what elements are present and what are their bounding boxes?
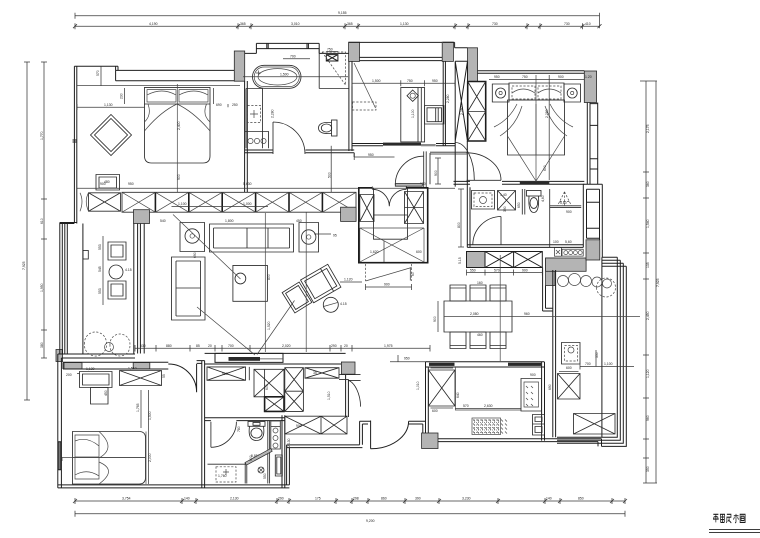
svg-text:5.15: 5.15 [458,257,462,264]
svg-text:1,130: 1,130 [104,103,113,107]
svg-text:600: 600 [543,165,547,171]
entry door arc [371,421,409,449]
svg-text:900: 900 [177,174,181,180]
wall TV segment [205,353,346,364]
svg-text:540: 540 [160,219,166,223]
bed2 axis [62,432,146,485]
wall bathroom1 top step [245,43,349,53]
door closet leaf gray [395,184,422,187]
wall step right of laundry [443,42,468,47]
wall entry left jamb [360,421,371,445]
laundry drying rack [354,63,376,108]
dim line right segments [640,81,657,483]
sliding door dark bar left [429,363,455,366]
window top laundry [349,42,454,60]
svg-text:2,020: 2,020 [282,344,291,348]
dim above wardrobe band [77,187,455,189]
svg-text:250: 250 [232,103,238,107]
washer circles [248,138,266,143]
svg-text:9,200: 9,200 [366,519,375,523]
svg-text:553: 553 [98,288,102,294]
balcony table circle [109,265,123,279]
bedroom2 tv cabinet cross [120,371,162,386]
kitchen counter edge [455,367,521,410]
svg-text:570: 570 [463,404,469,408]
bed master pillows [147,90,208,102]
svg-text:5,630: 5,630 [243,182,252,186]
svg-text:2,000: 2,000 [148,453,152,462]
wall left outer [60,66,77,223]
dim corridor ensuite [458,189,464,247]
svg-text:900: 900 [530,373,536,377]
svg-text:1,770: 1,770 [40,131,44,140]
ensuite door arc [473,217,501,246]
dim corridor 950 [354,154,394,160]
svg-text:700: 700 [585,362,591,366]
svg-text:460: 460 [477,333,483,337]
svg-text:900: 900 [384,283,390,287]
door bathroom1 arc [273,122,305,154]
svg-text:700: 700 [228,344,234,348]
svg-text:750: 750 [327,48,333,52]
closet right wardrobe [405,192,424,224]
toilet bathroom1 [319,120,338,136]
svg-text:450: 450 [296,219,302,223]
svg-text:4.15: 4.15 [340,302,347,306]
kitchen sink cabinet [521,379,542,412]
svg-text:900: 900 [434,170,438,176]
bedroom2 dresser [80,372,113,388]
svg-text:2,130: 2,130 [230,497,239,501]
gray block hall door [341,362,355,374]
nub on left balcony wall [83,251,88,260]
balcony stool A [108,242,126,260]
wall gray L horizontal [546,258,587,271]
ensuite vanity [472,191,495,210]
bathtub [243,65,348,88]
svg-text:1,100: 1,100 [411,109,415,118]
wall gray L vertical stub [546,258,555,286]
column top D [468,48,478,82]
basin dashed bathroom1 [248,106,261,123]
dim bedroom1 inner [77,66,228,110]
dim line left segments [41,62,47,358]
svg-text:2,175: 2,175 [646,124,650,133]
column top B [349,42,360,61]
svg-text:1,000: 1,000 [243,202,252,206]
dim kitchen [455,408,521,410]
svg-text:7,925: 7,925 [22,261,26,270]
svg-text:350: 350 [595,352,599,358]
dim laundry top [352,80,455,86]
svg-text:3,754: 3,754 [122,497,131,501]
svg-text:800: 800 [457,222,461,228]
bed3 axis [535,75,537,181]
svg-text:650: 650 [517,202,521,208]
balcony storage cross [574,414,616,435]
bath2 counter [208,463,246,465]
bath2 toilet [248,422,265,441]
wall corridor verticals [455,141,467,187]
dim living mid [172,206,269,208]
dim line right overall 7925 [655,81,657,483]
svg-text:390: 390 [415,497,421,501]
svg-text:390: 390 [503,206,507,212]
svg-text:1.20: 1.20 [585,75,592,79]
hall storage bottom row [285,416,347,434]
svg-text:730: 730 [492,22,498,26]
bed3 body [508,100,565,155]
dining chairs top [450,285,506,301]
svg-text:1,120: 1,120 [344,278,353,282]
svg-text:960: 960 [524,312,530,316]
wall entry recess [287,445,363,448]
svg-text:2,400: 2,400 [177,121,181,130]
laundry stool [425,106,444,125]
svg-text:1,975: 1,975 [384,344,393,348]
dim line top overall 9155 [75,13,600,28]
entry gray block [422,433,438,449]
door closet top arcs [372,187,406,207]
TV console dark [229,357,261,361]
svg-text:750: 750 [522,75,528,79]
svg-text:2,450: 2,450 [646,311,650,320]
dim corridor 900 vertical [435,158,441,184]
svg-text:600: 600 [416,250,422,254]
svg-text:4.15: 4.15 [125,268,132,272]
svg-text:1,800: 1,800 [225,219,234,223]
svg-text:1,010: 1,010 [416,381,420,390]
wall laundry left [349,61,352,151]
svg-text:900: 900 [558,75,564,79]
wall hall-bath top [205,418,285,421]
svg-text:2,280: 2,280 [545,109,549,118]
balcony washer cross [558,374,581,400]
svg-text:290: 290 [331,344,337,348]
door bedroom2 arc [168,364,196,392]
wall corridor right stub [430,152,467,154]
svg-text:880: 880 [166,344,172,348]
sofa side table right with lamp [299,223,319,253]
balcony plants [84,332,130,356]
balcony left glazing [553,270,556,437]
bed2 pillows [75,435,99,479]
svg-text:2,130: 2,130 [287,438,291,447]
shower cell bathroom1 [322,52,346,85]
coffee table [233,265,268,301]
kitchen corner boxes [533,415,545,436]
bed2 body [73,432,146,485]
wall bottom-left outer corner vertical [287,445,290,485]
bath2 shower left edge [245,463,247,484]
gray block closet left [341,207,357,221]
wall bedroom1 right (bathroom left) [245,81,248,192]
closet walls [359,188,428,263]
dim closet inner [340,241,384,283]
dim 500 vertical at hall top [330,146,332,193]
svg-text:600: 600 [566,366,572,370]
bed3 headboard [509,83,564,100]
svg-text:960: 960 [646,415,650,421]
wall bedroom1 top band [116,70,240,80]
dim line left overall 7925 [24,62,30,400]
wall bathroom1 bottom [245,150,355,157]
vanity bathroom1 [246,89,263,149]
gray block bedroom2 top left [64,363,82,369]
svg-text:5,60: 5,60 [560,201,567,205]
wall laundry bottom [352,144,455,146]
wall corridor right of hall [346,375,349,417]
wall closet right upper [424,151,430,187]
wall kitchen top rails [426,362,545,367]
kitchen counter top row [467,252,543,268]
svg-text:530: 530 [140,344,146,348]
svg-text:1,510: 1,510 [327,391,331,400]
wall living-balcony window [134,224,144,354]
svg-text:860: 860 [381,497,387,501]
svg-text:5,60: 5,60 [565,240,572,244]
bed2 blanket [73,432,146,485]
bath2 divider wall [268,421,270,484]
title underline [709,529,760,532]
dim dining [437,301,439,332]
svg-text:20: 20 [344,344,348,348]
svg-text:140: 140 [546,497,552,501]
dim balcony right [580,350,634,370]
bed master headboard [145,87,211,104]
wall ensuite toilet divider [522,189,525,215]
sofa side table left with lamp [180,223,205,252]
balcony plants right [558,274,616,298]
column top E [584,71,596,103]
svg-text:3,010: 3,010 [291,22,300,26]
door bedroom1 arcs [80,193,89,211]
door bedroom3 arc [467,153,502,181]
svg-text:360: 360 [646,181,650,187]
ensuite shower [550,206,582,208]
gray block bedroom2 top mid [133,363,150,369]
sofa main [210,224,294,252]
bedroom2 dresser stool [91,388,109,405]
dim line top segments [75,23,600,29]
basin cross [250,110,258,118]
towel box [555,248,562,257]
svg-text:1,130: 1,130 [400,22,409,26]
svg-text:4,60: 4,60 [541,195,545,202]
svg-text:900: 900 [433,316,437,322]
dining construction lines [444,255,640,361]
svg-text:1,620: 1,620 [370,250,379,254]
door closet arc [395,156,423,184]
svg-text:175: 175 [315,497,321,501]
wall bedroom2 left [58,354,135,488]
dining table [444,301,512,332]
svg-text:2,280: 2,280 [271,109,275,118]
wall bedroom3 top [478,71,585,74]
dim line bottom segments [75,498,625,504]
svg-text:553: 553 [98,244,102,250]
wall hall-dining stub [339,375,361,380]
svg-text:900: 900 [100,182,106,186]
balcony sink dashed [562,343,581,365]
bed master body [145,104,211,163]
svg-text:570: 570 [494,268,500,272]
svg-text:55: 55 [162,374,166,378]
dim bedroom3 [489,79,584,81]
svg-text:690: 690 [548,384,552,390]
svg-text:2,280: 2,280 [446,94,450,103]
curtain line bedroom1 [77,85,240,87]
svg-text:550: 550 [470,268,476,272]
column top A [234,51,244,81]
dim balcony left [102,236,104,305]
svg-text:350: 350 [646,466,650,472]
wall bedroom3 bottom [454,181,585,184]
balcony right glazing [557,257,626,446]
window bedroom3 right [587,103,597,185]
svg-text:900: 900 [522,268,528,272]
svg-text:800: 800 [267,274,271,280]
svg-text:1,500: 1,500 [372,79,381,83]
svg-text:780: 780 [237,426,241,432]
svg-text:690: 690 [216,103,222,107]
svg-text:1,500: 1,500 [280,73,289,77]
svg-text:135: 135 [646,262,650,268]
svg-text:140: 140 [184,497,190,501]
laundry desk [401,88,425,142]
dim bedroom2 [148,390,150,484]
door bedroom1 with cross [89,193,121,211]
bath2 door arc [211,422,237,448]
bath2 shower head [258,467,264,473]
svg-text:20: 20 [208,344,212,348]
wall shaft right mid [583,184,602,257]
svg-text:600: 600 [265,384,269,390]
svg-text:4,190: 4,190 [149,22,158,26]
svg-text:1,520: 1,520 [267,321,271,330]
svg-text:290: 290 [278,497,284,501]
svg-text:950: 950 [368,153,374,157]
svg-text:950: 950 [494,75,500,79]
svg-text:7,925: 7,925 [656,278,660,287]
wall laundry right [443,61,445,145]
kitchen mosaic mat [472,418,507,435]
svg-text:510: 510 [222,372,228,376]
bed3 blanket fan [494,104,573,181]
dim counter [467,270,543,276]
sliding door dark bar right [508,363,541,366]
svg-text:200: 200 [66,373,72,377]
bed master blanket curves [145,104,211,131]
svg-text:60: 60 [411,272,415,276]
svg-text:1,120: 1,120 [646,369,650,378]
bath2 shower gray diagonal [245,449,272,466]
svg-text:730: 730 [564,22,570,26]
svg-text:900: 900 [296,424,302,428]
svg-text:1,510: 1,510 [128,367,137,371]
svg-text:950: 950 [128,182,134,186]
gray corner block balcony [56,350,63,362]
lounge chair rotated [301,264,341,302]
closet left wardrobe [360,195,374,222]
bed3 pillows [512,86,561,99]
title [709,514,760,533]
svg-text:160: 160 [477,281,483,285]
balcony left glazing lines [60,223,83,354]
svg-text:100: 100 [553,240,559,244]
svg-text:850: 850 [578,497,584,501]
svg-text:95: 95 [333,234,337,238]
bathroom1 partition [319,49,348,89]
svg-text:600: 600 [432,409,438,413]
svg-text:2,080: 2,080 [470,312,479,316]
dim line bottom overall 9200 [75,511,625,517]
wall gray right arm [586,240,600,260]
svg-text:1,40: 1,40 [500,193,507,197]
dim 95 side table [314,233,331,235]
sink unit circles in gray band [562,249,583,256]
hall storage A2 [265,397,284,412]
svg-text:690: 690 [193,252,197,258]
svg-text:35: 35 [313,371,317,375]
wall bedroom2 top band [63,362,168,369]
duct shaft with cross [455,61,467,151]
svg-text:700: 700 [290,55,296,59]
svg-text:950: 950 [432,79,438,83]
svg-text:85: 85 [196,344,200,348]
dresser bedroom1 [96,175,120,191]
column top C [442,42,453,61]
bath2 fixtures column [271,421,281,449]
svg-text:1,540: 1,540 [646,219,650,228]
balcony stool B [108,281,126,299]
closet lower diagonal [366,268,412,282]
wall hall left (bedroom2 right) [197,361,205,488]
wall kitchen right [542,362,545,441]
svg-text:545: 545 [98,266,102,272]
wardrobe bedroom3 [468,82,486,142]
kitchen fridge cross [429,370,456,406]
window tick left wall [73,140,77,142]
svg-text:298: 298 [353,497,359,501]
svg-text:2,630: 2,630 [484,404,493,408]
svg-text:550: 550 [263,473,267,479]
floor lamp [323,297,338,312]
svg-text:640: 640 [456,392,460,398]
column gray below band left [134,210,150,224]
laundry dashed cabinet [353,102,377,110]
ensuite toilet [527,191,542,213]
nightstand bedroom3 left [492,84,509,102]
wall ensuite bottom [467,245,583,248]
wardrobe band living top [122,192,356,212]
loveseat left [172,257,206,320]
closet lower dashed guides [366,264,412,281]
hall storage B [285,368,304,412]
wall bottom outer [58,485,290,488]
svg-text:1,950: 1,950 [40,283,44,292]
svg-text:950: 950 [404,357,410,361]
bed master axis [176,84,178,192]
wall kitchen bottom [438,439,602,447]
svg-text:365: 365 [347,22,353,26]
dining chairs bottom [450,332,506,349]
wall bath right [282,415,285,488]
svg-text:570: 570 [96,70,100,76]
hall storage X left [207,367,249,380]
ensuite washer cross [498,191,516,211]
threshold bedroom3 door sill [520,182,550,185]
